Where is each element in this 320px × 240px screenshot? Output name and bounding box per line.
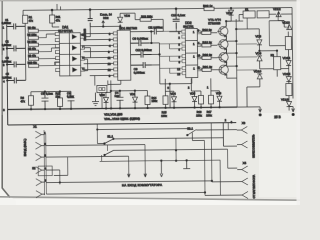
- wire K3.1 stub drop: [192, 140, 205, 195]
- svg-text:VD15: VD15: [283, 72, 291, 76]
- svg-text:ЗВУКОСНИМАТЕЛЬ: ЗВУКОСНИМАТЕЛЬ: [252, 134, 255, 158]
- svg-text:100к: 100к: [196, 113, 203, 117]
- wire VT4 row to diode column: [237, 69, 257, 71]
- diode VD5 with tap 2: [188, 79, 197, 109]
- wire caps to DD2: [149, 43, 170, 108]
- resistor R9 47k: [28, 55, 39, 61]
- scan bottom edge: [0, 197, 300, 200]
- label zvukosnimatel vertical: [252, 134, 255, 158]
- resistor R10 43k: [28, 62, 39, 68]
- svg-text:0,068мк: 0,068мк: [134, 71, 146, 75]
- label Vhod(vyh) vertical: [23, 139, 27, 157]
- capacitor C3 0.068mk: [2, 57, 26, 68]
- svg-text:К1.1: К1.1: [107, 134, 113, 138]
- resistor R18 2k: [202, 40, 218, 47]
- wire mid vertical x152: [150, 31, 152, 44]
- wire right mid rail x279: [277, 14, 279, 20]
- diode VD4: [165, 91, 176, 108]
- svg-text:VD6: VD6: [216, 91, 222, 95]
- resistor R23 vertical: [285, 32, 291, 55]
- svg-text:VD13: VD13: [282, 21, 290, 25]
- page white area bottom-right: [259, 113, 297, 197]
- diode VD3: [118, 13, 131, 26]
- connector X4 label: [243, 161, 247, 165]
- connector X1 label: [33, 125, 37, 129]
- wire ladder taps: [38, 31, 59, 66]
- connector X1 pin4: [36, 167, 47, 174]
- wire DD1 bottom drops: [95, 75, 121, 108]
- wire DA1 outputs: [84, 27, 90, 71]
- capacitor C9 0.068mk: [131, 62, 152, 75]
- resistor R16 2k: [202, 28, 218, 35]
- resistor R16 100k vertical: [194, 91, 203, 118]
- svg-text:VD3...VD16 КД521 (КД503): VD3...VD16 КД521 (КД503): [104, 117, 140, 121]
- svg-text:С11 0,068мк: С11 0,068мк: [148, 26, 163, 29]
- label diode types row1: [104, 112, 122, 116]
- DD2 left pin squares: [182, 30, 186, 75]
- wire frame drop to X3 pin2: [223, 123, 237, 147]
- wire K2.1 out to X4 pin1: [228, 149, 238, 168]
- wire bus top run: [31, 90, 71, 92]
- wire frame drop to X3 pin1: [228, 123, 237, 130]
- connector X1 pin2: [35, 142, 46, 149]
- switch K2.1: [104, 149, 228, 156]
- small box DD5: [97, 85, 107, 92]
- wire K1.1 feed from frame: [97, 124, 104, 144]
- transistor VT3: [217, 48, 228, 66]
- svg-text:100к: 100к: [151, 99, 158, 103]
- capacitor C4 0.068mk: [2, 73, 26, 84]
- ground symbol main: [92, 93, 99, 106]
- wire frame drop to X4 pin2: [210, 123, 237, 182]
- transistor VT4: [218, 61, 229, 78]
- label 25 V: [274, 115, 281, 119]
- wire pin6 long run: [46, 192, 205, 194]
- svg-text:VD12: VD12: [273, 7, 281, 11]
- transistor VT2: [217, 35, 228, 53]
- svg-text:С10 0,1мк: С10 0,1мк: [171, 13, 186, 17]
- connector X4 pin1: [237, 166, 248, 173]
- IC DD1 561TM2: [117, 26, 138, 80]
- label K vyv.14 DD2: [100, 12, 112, 20]
- wire emitters to x237: [226, 19, 238, 107]
- node 4: [3, 80, 5, 84]
- svg-text:100к: 100к: [206, 113, 213, 117]
- wire VT2 row to diode column: [236, 43, 256, 45]
- relay K2 coil vertical: [270, 51, 280, 77]
- resistor R11 47k: [50, 15, 61, 23]
- DD1 pin numbers: [107, 32, 111, 78]
- resistor R3 43k: [28, 27, 39, 33]
- wire K2 net horizontal y30: [235, 28, 259, 39]
- resistor R1 47k: [23, 15, 34, 23]
- wire DD1 drop x111: [110, 80, 148, 109]
- connector X1 pin1: [35, 131, 46, 138]
- diode VD15: [283, 71, 292, 82]
- wire left rail: [6, 24, 9, 109]
- resistor R15 100k vertical with tap 3: [161, 79, 170, 118]
- resistor R13 100k: [135, 13, 157, 21]
- connector X1 pin5: [36, 179, 47, 186]
- svg-text:12: 12: [108, 68, 112, 72]
- svg-text:VD14: VD14: [283, 56, 291, 60]
- svg-text:ОТ МАГНИТОФОНА: ОТ МАГНИТОФОНА: [253, 175, 256, 199]
- capacitor C6 0.1mk: [67, 91, 75, 109]
- svg-text:25 В: 25 В: [274, 115, 281, 119]
- DA1 right pins: [81, 33, 85, 71]
- svg-text:С12 0,068мк: С12 0,068мк: [135, 48, 152, 52]
- svg-text:DD2: DD2: [103, 16, 109, 20]
- IC DD2 561LA7: [183, 21, 198, 78]
- wire pin5 long run: [46, 180, 212, 183]
- DD1 left pin squares: [113, 32, 117, 77]
- wire long upper run: [97, 128, 188, 130]
- connector X4 pin2: [237, 178, 248, 185]
- diode VD9: [255, 51, 262, 69]
- diode VD8: [255, 34, 262, 51]
- wire arrow up to DD2 pin14: [102, 20, 105, 26]
- DD2 right pin squares: [197, 31, 201, 71]
- wire link between switches: [106, 145, 108, 151]
- wire DD2 inputs left: [159, 23, 182, 74]
- commutator arrow2: [144, 174, 147, 178]
- wire R11 drop: [51, 9, 59, 27]
- wire pin2 run to arrow2: [46, 145, 145, 176]
- page bottom white strip: [0, 199, 300, 205]
- svg-text:Х1: Х1: [33, 125, 37, 129]
- resistor R24 vertical: [286, 82, 292, 98]
- capacitor C5 0.1mk: [41, 91, 54, 110]
- wire right rail: [291, 8, 294, 99]
- svg-text:НА ВХОД КОММУТАТОРА: НА ВХОД КОММУТАТОРА: [122, 183, 162, 187]
- DD2 right pins: [197, 28, 202, 69]
- switch K1.1: [104, 133, 224, 144]
- diode VD12: [273, 7, 292, 17]
- label na vhod kommutatora: [122, 183, 162, 187]
- diode VD13: [278, 21, 292, 30]
- svg-text:VD9: VD9: [255, 51, 261, 55]
- capacitor C10 0.1mk top: [171, 8, 186, 29]
- svg-text:К3.1: К3.1: [187, 127, 193, 131]
- DD2 pin7 ground drop: [169, 78, 192, 85]
- label magnitofon vertical: [253, 175, 256, 199]
- wire bottom bus: [8, 107, 237, 109]
- label diode types row2: [104, 117, 140, 121]
- svg-text:0,1мк: 0,1мк: [46, 92, 54, 96]
- connector X1 pin6: [36, 191, 45, 198]
- commutator arrow1: [127, 174, 130, 178]
- svg-text:Х4: Х4: [243, 161, 247, 165]
- wire top stub: [57, 4, 61, 10]
- diode VD10: [247, 69, 263, 107]
- wire K2.1 to lower run: [100, 154, 221, 162]
- wire pin14 net: [90, 25, 121, 30]
- node 2 frame: [225, 118, 227, 122]
- DA1 right pin squares: [80, 35, 84, 71]
- wire K1 right nets: [247, 18, 289, 69]
- terminal arrow 25V right: [289, 106, 294, 115]
- svg-text:R15: R15: [162, 110, 167, 114]
- resistor R14 100k vertical: [145, 90, 158, 108]
- resistor R20 2k: [202, 53, 218, 60]
- relay K1 coil: [239, 7, 273, 21]
- wire lower run to X4 pin3: [205, 160, 238, 196]
- node 2: [3, 47, 5, 51]
- wire R1 drop: [23, 10, 26, 80]
- diode VD7: [226, 7, 234, 26]
- svg-text:11: 11: [108, 56, 111, 60]
- page bottom-left white corner: [0, 150, 16, 205]
- capacitor C13: [114, 90, 123, 109]
- resistor R2 47k: [20, 92, 33, 110]
- connector X4 pin3: [237, 191, 248, 198]
- capacitor C7: [83, 9, 93, 41]
- DD2 left pins: [177, 31, 181, 77]
- connector X3 label: [242, 121, 246, 125]
- wire switch outputs junction: [175, 138, 177, 161]
- capacitor C11 0.068mk top: [130, 26, 163, 34]
- page white margin right: [297, 0, 301, 205]
- resistor R6 330k: [27, 41, 38, 47]
- op-amp DA1 K174UN: [58, 25, 81, 76]
- svg-text:100к: 100к: [161, 114, 168, 118]
- svg-text:DD1 561ТМ2: DD1 561ТМ2: [119, 26, 137, 30]
- resistor R21 2k: [202, 65, 218, 72]
- wire VD3 top to R13: [120, 13, 163, 32]
- scan left edge: [2, 1, 10, 198]
- svg-text:С8 0,068мк: С8 0,068мк: [132, 37, 148, 41]
- wire DD1 input wires: [83, 33, 113, 75]
- shield double line: [44, 130, 46, 195]
- terminal arrow 25V left: [237, 107, 261, 116]
- diode VD1: [130, 90, 138, 109]
- node 8 bus start: [3, 108, 5, 112]
- svg-text:13: 13: [108, 62, 112, 66]
- wire frame bottom: [8, 107, 237, 125]
- wire top supply rail: [23, 8, 292, 11]
- connector X3 pin1: [237, 126, 248, 133]
- svg-text:VD16: VD16: [281, 98, 289, 102]
- svg-text:VD3: VD3: [124, 14, 130, 18]
- node 3 frame: [231, 120, 233, 124]
- capacitor C8 0.068mk: [130, 37, 149, 47]
- wire VT1 collector to relay row: [225, 20, 243, 22]
- switch K3.1: [186, 126, 228, 140]
- svg-text:КТ3102Б: КТ3102Б: [208, 21, 220, 25]
- connector X1 pin3: [36, 154, 47, 161]
- resistor R22 1k: [203, 4, 214, 11]
- resistor R8 47k: [28, 48, 39, 54]
- svg-text:VD10: VD10: [254, 69, 262, 73]
- svg-text:Х3: Х3: [242, 121, 246, 125]
- DA1 left pin squares: [55, 32, 59, 71]
- commutator arrow3: [160, 161, 163, 177]
- svg-text:R17: R17: [207, 110, 212, 114]
- diode VD14: [283, 55, 292, 71]
- wire VT3 row to diode column: [237, 56, 257, 58]
- label VT1-VT4: [208, 18, 221, 26]
- wire pin4 short run: [46, 157, 68, 184]
- node 1: [2, 26, 4, 30]
- svg-text:VD4: VD4: [170, 92, 176, 96]
- scan top edge: [0, 0, 300, 1]
- connector X3 pin2: [237, 141, 248, 148]
- antenna ground stub: [183, 160, 190, 169]
- capacitor C1 0.068mk: [2, 19, 26, 30]
- svg-text:R16: R16: [197, 110, 202, 114]
- svg-text:К174УП2А: К174УП2А: [58, 29, 73, 33]
- resistor R5 130k: [27, 34, 38, 40]
- capacitor C11 0.068mk: [130, 48, 152, 58]
- relay box K2 bottom: [32, 166, 52, 176]
- svg-text:VD8: VD8: [255, 34, 261, 38]
- diode VD16: [281, 98, 292, 111]
- transistor VT1: [217, 21, 228, 41]
- wire pin3 run to arrow1: [46, 156, 129, 175]
- resistor R17 100k vertical with tap 1: [206, 78, 214, 117]
- resistor R12 10k: [55, 91, 62, 110]
- node 3: [3, 63, 5, 67]
- scan shading patches: [0, 0, 300, 60]
- svg-text:ВХОД (ВЫХ.): ВХОД (ВЫХ.): [23, 139, 27, 157]
- wire DD1 input stubs left: [82, 34, 84, 71]
- svg-text:К2: К2: [32, 166, 36, 170]
- diode VD2: [99, 92, 111, 109]
- svg-text:VD2: VD2: [99, 93, 105, 97]
- capacitor C2 0.068mk: [2, 40, 26, 51]
- diode VD6: [211, 91, 222, 108]
